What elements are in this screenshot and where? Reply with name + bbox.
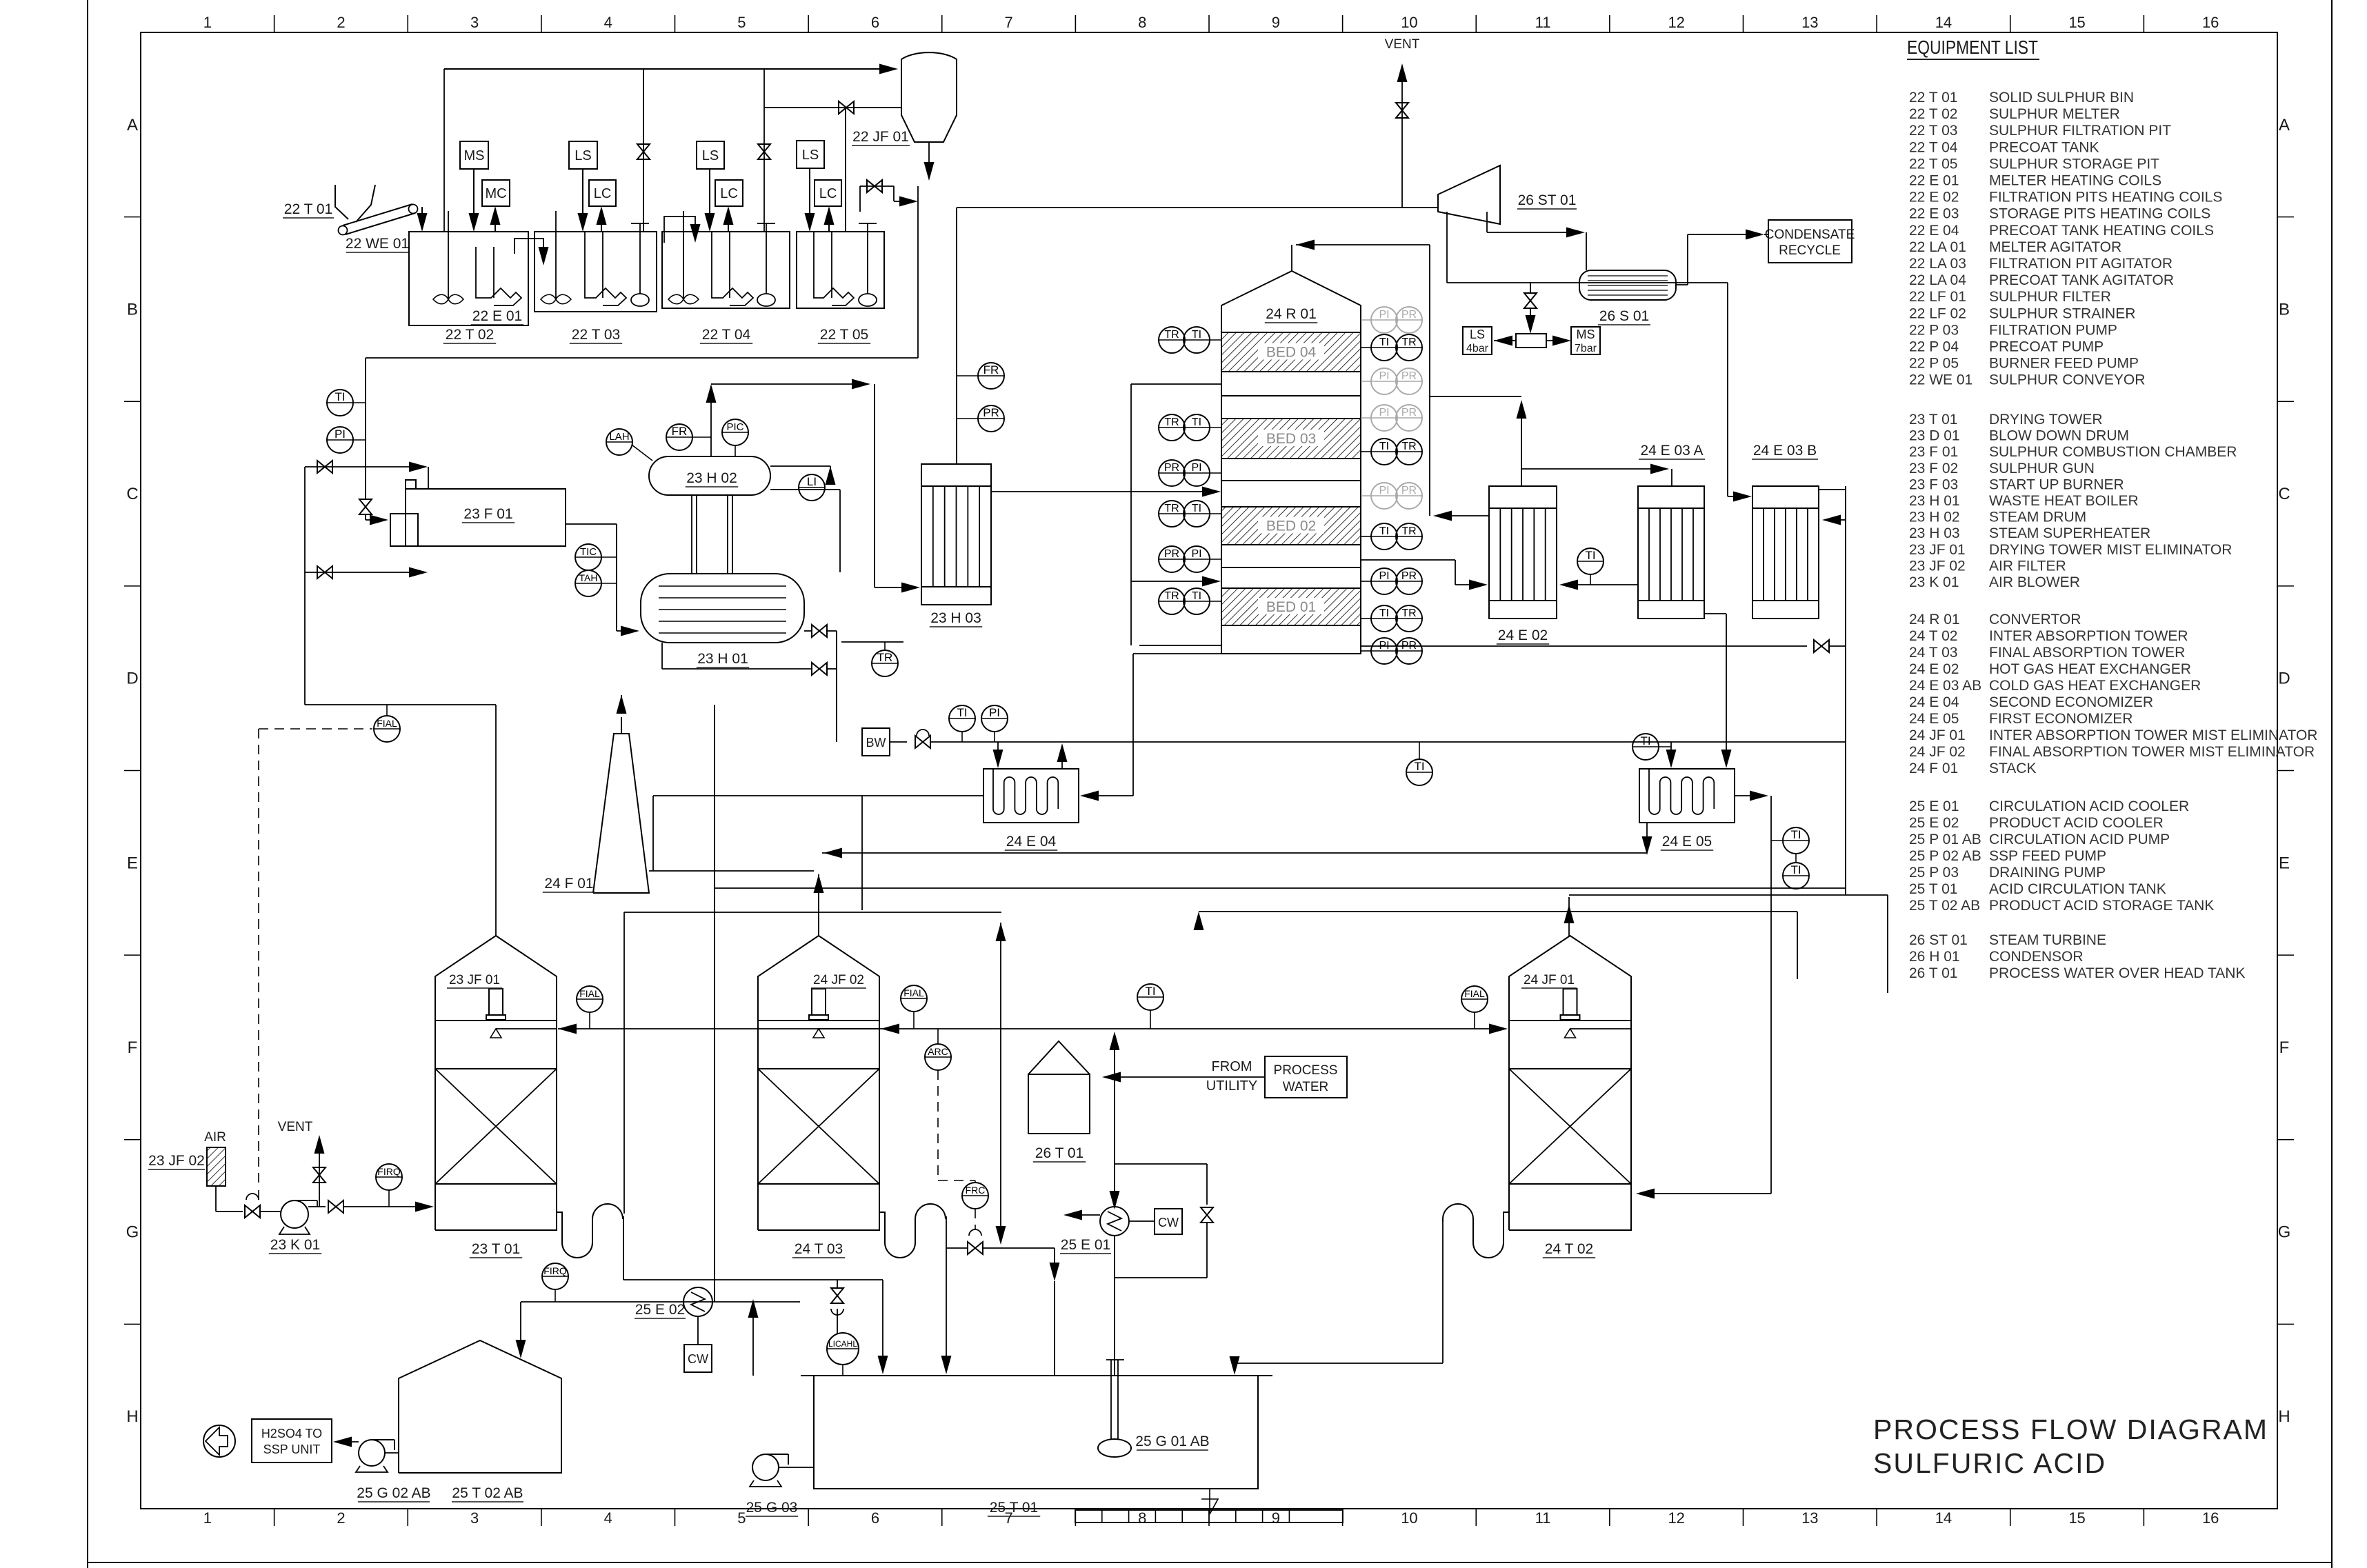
svg-text:CW: CW <box>688 1352 708 1366</box>
converter bottom line to E03B <box>1361 645 1807 647</box>
TI on line to right <box>1406 759 1432 785</box>
svg-text:INTER ABSORPTION TOWER: INTER ABSORPTION TOWER <box>1989 628 2188 644</box>
svg-text:DRYING TOWER MIST ELIMINATOR: DRYING TOWER MIST ELIMINATOR <box>1989 542 2232 558</box>
svg-text:FILTRATION PUMP: FILTRATION PUMP <box>1989 322 2117 338</box>
TI on header 1 <box>1137 984 1163 1010</box>
svg-text:23 T 01: 23 T 01 <box>472 1241 520 1257</box>
svg-text:6: 6 <box>871 14 879 31</box>
PR on steam line <box>978 405 1004 432</box>
svg-text:STEAM DRUM: STEAM DRUM <box>1989 510 2086 525</box>
svg-text:PI: PI <box>1379 485 1389 496</box>
svg-text:10: 10 <box>1401 1509 1417 1527</box>
pump 25 G 03 <box>752 1454 779 1480</box>
E04 inlet arrow <box>997 742 999 758</box>
svg-text:TI: TI <box>1192 416 1201 428</box>
transfer pipe T03-T04 <box>664 217 695 243</box>
svg-text:UTILITY: UTILITY <box>1206 1078 1257 1094</box>
svg-text:26 T 01: 26 T 01 <box>1909 965 1957 981</box>
svg-text:H2SO4 TO: H2SO4 TO <box>261 1427 322 1440</box>
svg-text:LS: LS <box>802 148 819 163</box>
svg-text:FRC: FRC <box>966 1185 986 1196</box>
steam drum 23 H 02 <box>649 456 770 495</box>
svg-text:23 H 01: 23 H 01 <box>697 651 748 667</box>
svg-text:PR: PR <box>1401 309 1417 321</box>
svg-text:AIR: AIR <box>204 1130 226 1145</box>
svg-text:SULPHUR GUN: SULPHUR GUN <box>1989 461 2095 476</box>
svg-text:24 E 05: 24 E 05 <box>1909 711 1959 727</box>
svg-text:5: 5 <box>737 1509 746 1527</box>
process water box <box>1265 1056 1347 1098</box>
svg-text:FIAL: FIAL <box>1464 988 1485 999</box>
first economizer 24 E 05 <box>1639 769 1735 823</box>
svg-text:23 JF 02: 23 JF 02 <box>148 1153 205 1169</box>
svg-text:PI: PI <box>989 706 1000 719</box>
svg-text:TI: TI <box>1379 441 1389 452</box>
svg-text:22 P 03: 22 P 03 <box>1909 322 1959 338</box>
svg-text:MELTER HEATING COILS: MELTER HEATING COILS <box>1989 173 2161 189</box>
svg-text:24 E 04: 24 E 04 <box>1006 834 1057 850</box>
wire from drum line down <box>714 705 715 853</box>
svg-text:WASTE HEAT BOILER: WASTE HEAT BOILER <box>1989 493 2139 509</box>
svg-text:22 WE 01: 22 WE 01 <box>1909 372 1972 388</box>
svg-text:26 S 01: 26 S 01 <box>1599 308 1649 324</box>
furnace to boiler gas duct <box>566 523 617 525</box>
svg-text:9: 9 <box>1272 1509 1280 1527</box>
svg-text:TIC: TIC <box>580 546 597 558</box>
svg-text:D: D <box>2278 670 2290 688</box>
svg-text:C: C <box>2278 485 2290 503</box>
svg-text:TI: TI <box>1640 734 1650 747</box>
svg-text:SECOND ECONOMIZER: SECOND ECONOMIZER <box>1989 694 2153 710</box>
svg-text:TI: TI <box>1585 549 1595 562</box>
right instrument rows <box>1361 319 1372 321</box>
TIC indicator <box>575 544 601 570</box>
svg-text:PR: PR <box>983 406 999 419</box>
E02 top to converter return <box>1521 410 1522 486</box>
svg-text:SOLID SULPHUR BIN: SOLID SULPHUR BIN <box>1989 90 2134 105</box>
svg-text:11: 11 <box>1535 14 1551 31</box>
vent branch <box>319 1145 320 1207</box>
instrument box LC 1 <box>589 180 616 206</box>
water down pipe <box>1114 1027 1115 1077</box>
svg-text:SULPHUR CONVEYOR: SULPHUR CONVEYOR <box>1989 372 2145 388</box>
E04 outlet arrow <box>1061 753 1063 769</box>
heating coil 22 E 03 <box>813 232 815 286</box>
svg-text:B: B <box>127 300 138 319</box>
air control valve <box>245 1205 260 1218</box>
pump 25 G 02 AB <box>359 1440 385 1466</box>
svg-text:A: A <box>2279 116 2290 134</box>
svg-text:LI: LI <box>807 475 817 488</box>
svg-text:24 JF 02: 24 JF 02 <box>813 973 864 987</box>
PI indicator <box>327 427 353 453</box>
svg-text:VENT: VENT <box>278 1120 313 1134</box>
svg-text:13: 13 <box>1801 14 1818 31</box>
svg-text:22 T 02: 22 T 02 <box>1909 106 1957 122</box>
svg-text:23 H 03: 23 H 03 <box>1909 525 1960 541</box>
svg-text:22 LF 01: 22 LF 01 <box>1909 289 1966 305</box>
TR at boiler outlet line <box>841 641 903 643</box>
svg-text:15: 15 <box>2068 1509 2085 1527</box>
svg-text:CIRCULATION ACID PUMP: CIRCULATION ACID PUMP <box>1989 832 2170 847</box>
svg-text:FIAL: FIAL <box>579 988 600 999</box>
ARC analyzer <box>925 1044 951 1070</box>
svg-text:25 E 02: 25 E 02 <box>635 1302 685 1318</box>
svg-text:8: 8 <box>1138 14 1146 31</box>
letdown station <box>1516 334 1546 348</box>
level float 22 T 05 <box>859 294 877 306</box>
air blower 23 K 01 <box>281 1200 308 1228</box>
svg-text:VENT: VENT <box>1385 37 1420 52</box>
vent riser valve a <box>643 69 644 232</box>
cooler left outlet <box>1073 1214 1100 1216</box>
svg-text:H: H <box>126 1407 138 1426</box>
svg-text:CONDENSOR: CONDENSOR <box>1989 949 2084 965</box>
svg-text:FIRQ: FIRQ <box>377 1166 401 1177</box>
E05 drain <box>1646 823 1648 844</box>
svg-text:PR: PR <box>1164 462 1179 474</box>
svg-text:23 F 03: 23 F 03 <box>1909 476 1958 492</box>
instrument box LC 3 <box>815 180 841 206</box>
second economizer 24 E 04 <box>983 769 1079 823</box>
svg-text:24 JF 01: 24 JF 01 <box>1524 973 1575 987</box>
acid circulation tank 25 T 01 <box>801 1375 1272 1376</box>
svg-text:24 JF 02: 24 JF 02 <box>1909 744 1966 760</box>
CW box 2 <box>1155 1209 1182 1234</box>
left instrument rows <box>1210 339 1221 341</box>
svg-text:PRECOAT TANK HEATING COILS: PRECOAT TANK HEATING COILS <box>1989 223 2214 239</box>
arrows MS/MC <box>473 169 475 222</box>
svg-text:G: G <box>2278 1223 2291 1242</box>
instrument box MC <box>482 180 510 206</box>
hot gas heat exchanger 24 E 02 <box>1489 486 1557 619</box>
svg-text:LS: LS <box>1470 328 1485 341</box>
svg-text:CW: CW <box>1158 1216 1179 1229</box>
svg-text:PI: PI <box>1379 407 1389 419</box>
E03A to E02 line <box>1573 584 1638 585</box>
cold gas heat exchanger 24 E 03 B <box>1752 486 1819 619</box>
svg-text:TI: TI <box>1379 607 1389 619</box>
svg-text:BED 02: BED 02 <box>1266 519 1316 534</box>
filter bypass loop <box>859 186 861 212</box>
svg-text:PRODUCT ACID STORAGE TANK: PRODUCT ACID STORAGE TANK <box>1989 898 2214 914</box>
svg-text:LC: LC <box>819 186 837 201</box>
seal line to tank <box>623 1279 883 1280</box>
svg-text:CONVERTOR: CONVERTOR <box>1989 612 2081 627</box>
svg-text:TR: TR <box>1164 329 1179 341</box>
BW blow down box 23 D 01 <box>862 728 890 756</box>
svg-text:MC: MC <box>485 186 506 201</box>
svg-text:TI: TI <box>1379 336 1389 348</box>
level float 22 T 04 <box>757 294 775 306</box>
svg-text:1: 1 <box>203 1509 212 1527</box>
converter outlet to 24 E 02 <box>1361 559 1455 561</box>
svg-text:LS: LS <box>575 148 591 163</box>
instrument box LC 2 <box>715 180 743 206</box>
svg-text:LICAHL: LICAHL <box>828 1339 857 1349</box>
drum level lines <box>770 465 830 467</box>
FIAL on 23 T 01 <box>577 986 603 1012</box>
LICAHL level controller <box>827 1333 859 1365</box>
line segment into tank arrows <box>879 1363 880 1364</box>
svg-text:TR: TR <box>1401 607 1416 619</box>
svg-text:24 E 02: 24 E 02 <box>1498 627 1548 643</box>
svg-text:24 R 01: 24 R 01 <box>1909 612 1960 627</box>
svg-text:4: 4 <box>604 14 612 31</box>
svg-text:24 E 02: 24 E 02 <box>1909 661 1959 677</box>
23 T 01 seal trap <box>557 1204 623 1258</box>
instrument box MS <box>460 141 488 169</box>
svg-text:24 F 01: 24 F 01 <box>1909 761 1958 776</box>
svg-text:5: 5 <box>737 14 746 31</box>
svg-text:2: 2 <box>337 14 345 31</box>
svg-text:FINAL ABSORPTION TOWER MIST EL: FINAL ABSORPTION TOWER MIST ELIMINATOR <box>1989 744 2315 760</box>
boiler risers to drum <box>691 495 692 574</box>
svg-text:LS: LS <box>702 148 719 163</box>
svg-text:24 JF 01: 24 JF 01 <box>1909 727 1966 743</box>
svg-text:TR: TR <box>1401 441 1416 452</box>
svg-text:INTER ABSORPTION TOWER MIST EL: INTER ABSORPTION TOWER MIST ELIMINATOR <box>1989 727 2317 743</box>
instrument box LS 3 <box>797 141 824 168</box>
circulation acid cooler 25 E 01 <box>1100 1207 1129 1236</box>
svg-text:BLOW DOWN DRUM: BLOW DOWN DRUM <box>1989 428 2129 444</box>
E03A bottom to E05 <box>1704 613 1726 614</box>
svg-text:23 JF 01: 23 JF 01 <box>449 973 500 987</box>
right main vertical <box>1845 486 1846 895</box>
bed divider lines <box>1221 395 1361 396</box>
svg-text:25 E 01: 25 E 01 <box>1061 1237 1110 1253</box>
steam superheater 23 H 03 <box>921 464 991 605</box>
svg-text:PI: PI <box>1379 309 1389 321</box>
svg-text:23 H 02: 23 H 02 <box>686 470 737 486</box>
svg-text:A: A <box>127 116 138 134</box>
transfer pipe T02-T03 <box>515 239 543 256</box>
svg-text:ARC: ARC <box>928 1046 948 1057</box>
svg-text:7: 7 <box>1004 14 1012 31</box>
FR indicator <box>666 424 692 450</box>
svg-text:TR: TR <box>1401 336 1416 348</box>
air filter 23 JF 02 <box>207 1147 226 1186</box>
level float 22 T 03 <box>631 294 649 306</box>
pump riser to product line <box>752 1311 754 1376</box>
svg-text:22 T 05: 22 T 05 <box>1909 156 1957 172</box>
cooler loop <box>1114 1164 1115 1207</box>
LI indicator <box>799 474 825 501</box>
svg-text:7bar: 7bar <box>1575 343 1597 354</box>
tank 22 T 05 (storage pit) <box>797 232 884 308</box>
svg-text:TR: TR <box>1401 525 1416 537</box>
svg-text:SULPHUR STRAINER: SULPHUR STRAINER <box>1989 305 2135 321</box>
svg-text:SSP UNIT: SSP UNIT <box>263 1443 321 1456</box>
hopper 22 T 01 <box>335 185 348 219</box>
PIC indicator <box>722 419 748 445</box>
svg-text:TR: TR <box>1164 416 1179 428</box>
svg-text:23 H 03: 23 H 03 <box>930 610 981 626</box>
long line y1288 <box>715 887 1846 889</box>
24 T 02 seal trap (mirrored) <box>1443 1204 1509 1258</box>
svg-text:BED 04: BED 04 <box>1266 345 1317 361</box>
svg-text:8: 8 <box>1138 1509 1146 1527</box>
conveyor 22 WE 01 <box>343 204 412 225</box>
svg-text:PRECOAT TANK AGITATOR: PRECOAT TANK AGITATOR <box>1989 272 2174 288</box>
svg-text:TI: TI <box>1192 329 1201 341</box>
svg-text:25 T 02 AB: 25 T 02 AB <box>452 1485 523 1501</box>
svg-text:25 E 01: 25 E 01 <box>1909 798 1959 814</box>
svg-text:PI: PI <box>1191 548 1201 560</box>
drain valve with LICAHL <box>837 1280 838 1288</box>
svg-text:PRODUCT ACID COOLER: PRODUCT ACID COOLER <box>1989 815 2164 831</box>
TI at E05 <box>1632 734 1659 760</box>
superheater outlet to converter <box>991 491 1207 492</box>
svg-text:23 JF 01: 23 JF 01 <box>1909 542 1966 558</box>
svg-text:STEAM SUPERHEATER: STEAM SUPERHEATER <box>1989 525 2150 541</box>
heating coil 22 E 02 <box>584 232 586 286</box>
svg-text:MS: MS <box>464 148 485 163</box>
svg-text:STORAGE PITS HEATING COILS: STORAGE PITS HEATING COILS <box>1989 206 2210 222</box>
svg-text:PRECOAT TANK: PRECOAT TANK <box>1989 139 2099 155</box>
graphic scale bar <box>1075 1510 1343 1522</box>
blower discharge <box>308 1206 326 1207</box>
boiler water line <box>890 741 907 743</box>
long line y1237 <box>822 852 1647 854</box>
svg-text:PI: PI <box>1191 462 1201 474</box>
E05 outlet right <box>1735 795 1757 796</box>
svg-text:MS: MS <box>1577 328 1595 341</box>
start up burner line 23 F 03 <box>305 572 412 573</box>
24 T 03 seal trap <box>879 1204 946 1258</box>
svg-text:23 H 02: 23 H 02 <box>1909 510 1960 525</box>
svg-text:24 E 03 B: 24 E 03 B <box>1753 443 1817 459</box>
tower gas out to right main <box>1568 897 1570 936</box>
svg-text:22 T 05: 22 T 05 <box>820 327 868 343</box>
svg-text:22 LA 03: 22 LA 03 <box>1909 256 1966 272</box>
sulphur filter 22 JF 01 <box>901 52 957 142</box>
offsite arrow symbol <box>203 1425 235 1457</box>
svg-text:DRAINING PUMP: DRAINING PUMP <box>1989 865 2106 881</box>
svg-text:4: 4 <box>604 1509 612 1527</box>
bed 04 <box>1221 332 1361 372</box>
svg-text:25 T 01: 25 T 01 <box>1909 881 1957 897</box>
svg-text:23 H 01: 23 H 01 <box>1909 493 1960 509</box>
svg-text:14: 14 <box>1935 1509 1952 1527</box>
svg-text:22 T 04: 22 T 04 <box>1909 139 1958 155</box>
svg-text:24 T 02: 24 T 02 <box>1909 628 1957 644</box>
svg-text:MELTER AGITATOR: MELTER AGITATOR <box>1989 239 2121 255</box>
svg-text:PRECOAT PUMP: PRECOAT PUMP <box>1989 339 2104 355</box>
TI indicator <box>327 390 353 416</box>
svg-text:2: 2 <box>337 1509 345 1527</box>
TAH indicator <box>575 570 601 596</box>
svg-text:RECYCLE: RECYCLE <box>1779 243 1841 258</box>
instrument box LS 1 <box>569 141 597 169</box>
riser from pump to header <box>1114 1043 1115 1165</box>
stack inlet line <box>649 870 814 872</box>
svg-text:AIR FILTER: AIR FILTER <box>1989 558 2066 574</box>
condensate to recycle <box>1676 284 1688 285</box>
svg-text:22 T 03: 22 T 03 <box>572 327 620 343</box>
product storage tank 25 T 02 AB <box>399 1340 561 1473</box>
svg-text:FROM: FROM <box>1212 1059 1252 1074</box>
svg-text:22 T 01: 22 T 01 <box>284 201 332 217</box>
svg-text:LAH: LAH <box>609 431 629 443</box>
svg-text:SULPHUR FILTER: SULPHUR FILTER <box>1989 289 2111 305</box>
condenser 26 S 01 <box>1579 270 1676 300</box>
gas into 24 T 02 from E05 line <box>1650 1193 1771 1194</box>
svg-text:24 F 01: 24 F 01 <box>544 876 593 892</box>
svg-text:BURNER FEED PUMP: BURNER FEED PUMP <box>1989 356 2139 372</box>
steam riser from drum <box>710 393 712 456</box>
svg-text:22 T 01: 22 T 01 <box>1909 90 1957 105</box>
vent riser valve b <box>763 69 765 232</box>
svg-text:B: B <box>2279 300 2290 319</box>
stack 24 F 01 <box>593 734 649 893</box>
svg-text:25 E 02: 25 E 02 <box>1909 815 1959 831</box>
agitator 22 LA 01 <box>448 211 449 299</box>
inter absorption tower 24 T 02 <box>1509 936 1631 1230</box>
heating coil 22 E 01 <box>475 247 477 286</box>
drain to tank 24T03 <box>946 1248 947 1363</box>
svg-text:F: F <box>2279 1038 2290 1057</box>
return line y1322 right <box>1199 911 1797 912</box>
svg-text:13: 13 <box>1801 1509 1818 1527</box>
svg-text:1: 1 <box>203 14 212 31</box>
svg-text:24 E 03 AB: 24 E 03 AB <box>1909 678 1981 694</box>
superheated steam line to turbine <box>956 208 957 464</box>
TI between exchangers <box>1577 548 1604 574</box>
feed drop to burner <box>365 358 366 499</box>
svg-text:12: 12 <box>1668 1509 1684 1527</box>
left interbed piping <box>1131 383 1221 385</box>
svg-text:TI: TI <box>1790 828 1801 841</box>
svg-text:25 T 02 AB: 25 T 02 AB <box>1909 898 1980 914</box>
svg-text:PI: PI <box>334 428 346 441</box>
E03B top feed <box>1727 283 1728 496</box>
svg-text:23 T 01: 23 T 01 <box>1909 412 1957 428</box>
svg-text:START UP BURNER: START UP BURNER <box>1989 476 2124 492</box>
svg-text:3: 3 <box>470 1509 479 1527</box>
svg-text:FIRST ECONOMIZER: FIRST ECONOMIZER <box>1989 711 2133 727</box>
E05 inlet from line <box>1670 742 1672 758</box>
water to tank <box>1110 1076 1265 1078</box>
FIRQ 2 <box>542 1263 568 1289</box>
svg-text:PR: PR <box>1164 548 1179 560</box>
left air margin line <box>304 467 306 705</box>
control valve <box>915 736 930 748</box>
acid supply header <box>558 1028 1492 1029</box>
svg-text:G: G <box>126 1223 139 1242</box>
svg-text:HOT GAS HEAT EXCHANGER: HOT GAS HEAT EXCHANGER <box>1989 661 2191 677</box>
svg-text:STEAM TURBINE: STEAM TURBINE <box>1989 932 2106 948</box>
svg-text:PI: PI <box>1379 370 1389 382</box>
svg-text:22 P 05: 22 P 05 <box>1909 356 1959 372</box>
svg-text:PR: PR <box>1401 485 1417 496</box>
svg-text:9: 9 <box>1272 14 1280 31</box>
svg-text:22 E 01: 22 E 01 <box>1909 173 1959 189</box>
svg-text:TI: TI <box>1414 760 1424 773</box>
control signal dashed <box>259 728 372 730</box>
steam to superheater <box>875 587 905 588</box>
vent with valve <box>1401 76 1403 208</box>
svg-text:22 E 02: 22 E 02 <box>1909 190 1959 205</box>
tank vent header top <box>444 68 886 70</box>
FIRQ flow meter <box>376 1164 402 1190</box>
converter top gas inlet <box>1291 245 1292 271</box>
E04 gas out to towers duct <box>653 795 983 796</box>
svg-text:22 WE 01: 22 WE 01 <box>346 236 409 252</box>
heating coil 22 E 04b <box>711 232 712 286</box>
border frame <box>87 0 88 1568</box>
svg-text:22 E 01: 22 E 01 <box>472 308 522 324</box>
